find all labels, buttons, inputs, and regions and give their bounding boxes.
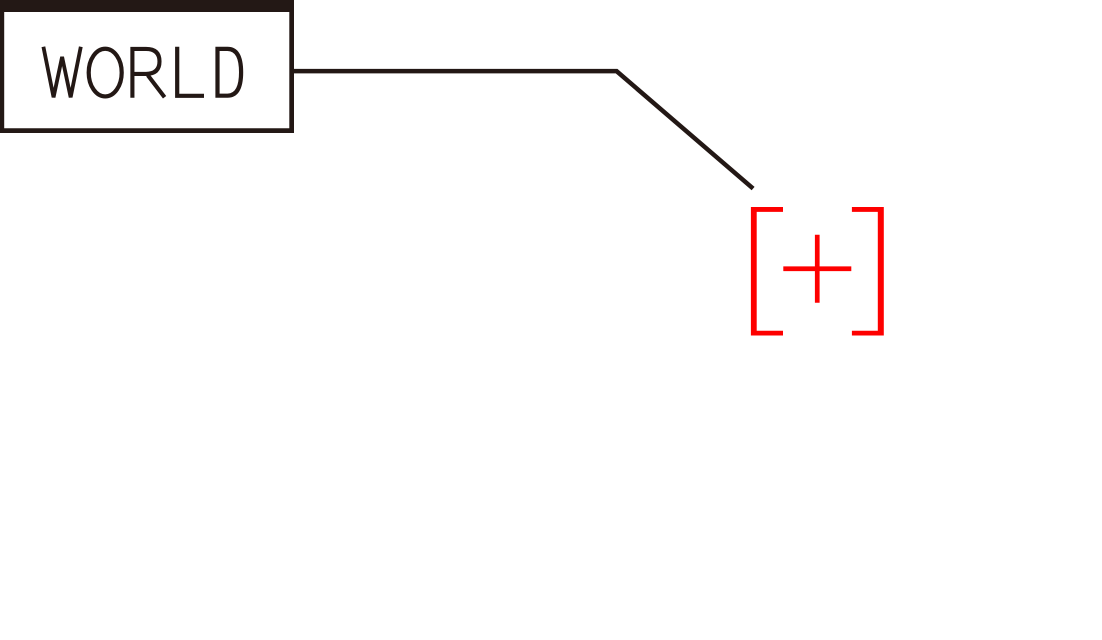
label WORLD letter O [89,49,122,97]
node WORLD box [0,0,294,133]
label WORLD letter R [132,49,164,98]
wire from WORLD box to branch marker [294,71,753,188]
label WORLD letter D [218,47,242,98]
branch marker left bracket [751,207,783,336]
branch marker right bracket [852,207,884,336]
label WORLD letter L [177,47,204,96]
branch marker plus sign [783,235,851,303]
label WORLD letter W [43,47,80,98]
